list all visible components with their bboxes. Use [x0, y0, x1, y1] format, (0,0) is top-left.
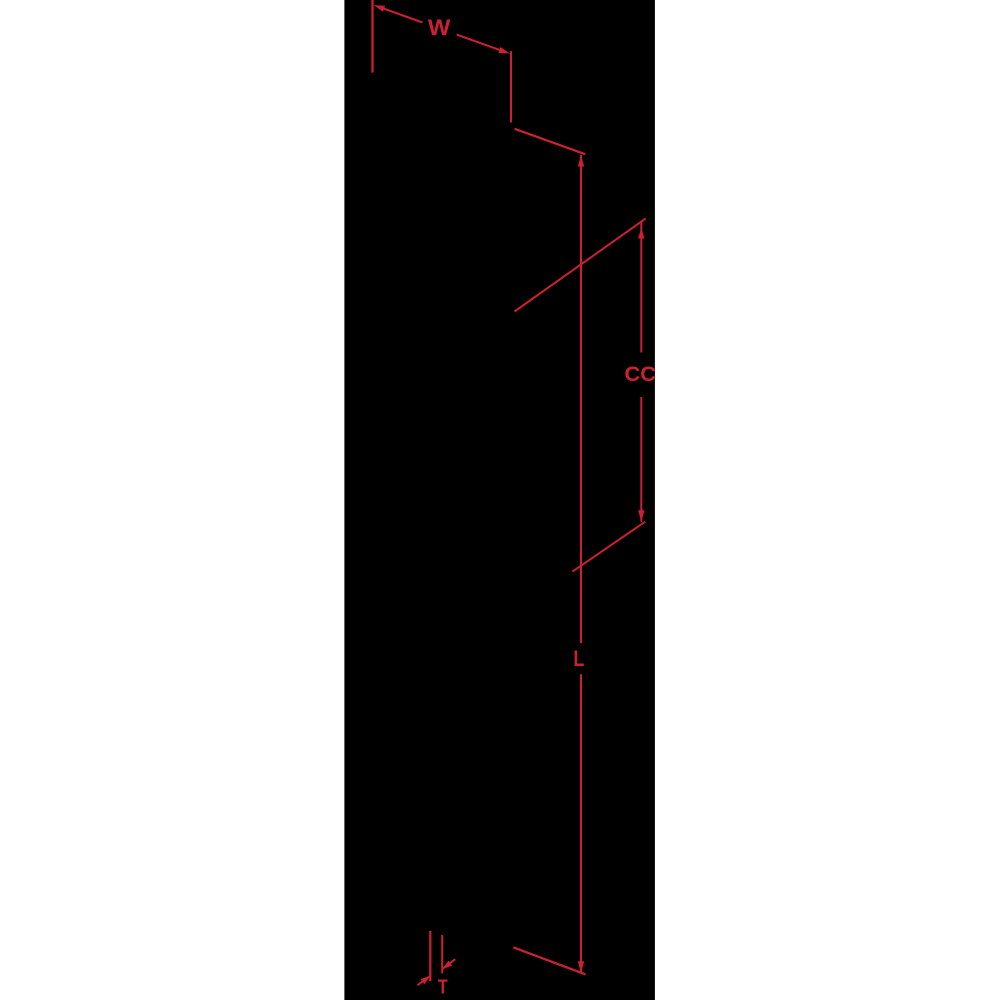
dimension line CC segment 2 — [640, 397, 642, 522]
leader line T left — [417, 976, 430, 985]
arrowhead T right — [442, 961, 452, 969]
arrowhead CC bottom — [638, 510, 644, 522]
extension line T left — [429, 931, 431, 981]
svg-text:W: W — [428, 15, 451, 40]
arrowhead L bottom — [578, 961, 584, 972]
svg-text:T: T — [438, 977, 448, 999]
bar bottom edge — [513, 947, 585, 974]
dimension line L segment 2 — [580, 674, 582, 972]
extension line T right — [441, 935, 443, 973]
dimension line W segment 2 — [457, 35, 500, 51]
arrowhead L top — [578, 155, 584, 166]
bar top edge — [515, 129, 586, 154]
dimension line L segment 1 — [580, 155, 582, 643]
arrowhead W left — [374, 5, 385, 12]
extension line W right — [510, 51, 512, 122]
extension line W left — [371, 0, 373, 73]
leader line T right — [443, 959, 456, 969]
extension line hole top — [515, 219, 646, 312]
arrowhead W right — [498, 47, 509, 54]
arrowhead CC top — [638, 228, 644, 239]
svg-text:CC: CC — [625, 362, 657, 386]
background panel (dark region behind drawing) — [344, 0, 655, 1000]
dimension line W segment 1 — [384, 9, 423, 23]
extension line hole bottom — [572, 522, 645, 572]
dimension line CC segment 1 — [640, 222, 642, 353]
svg-text:L: L — [573, 646, 584, 671]
arrowhead T left — [421, 976, 431, 984]
